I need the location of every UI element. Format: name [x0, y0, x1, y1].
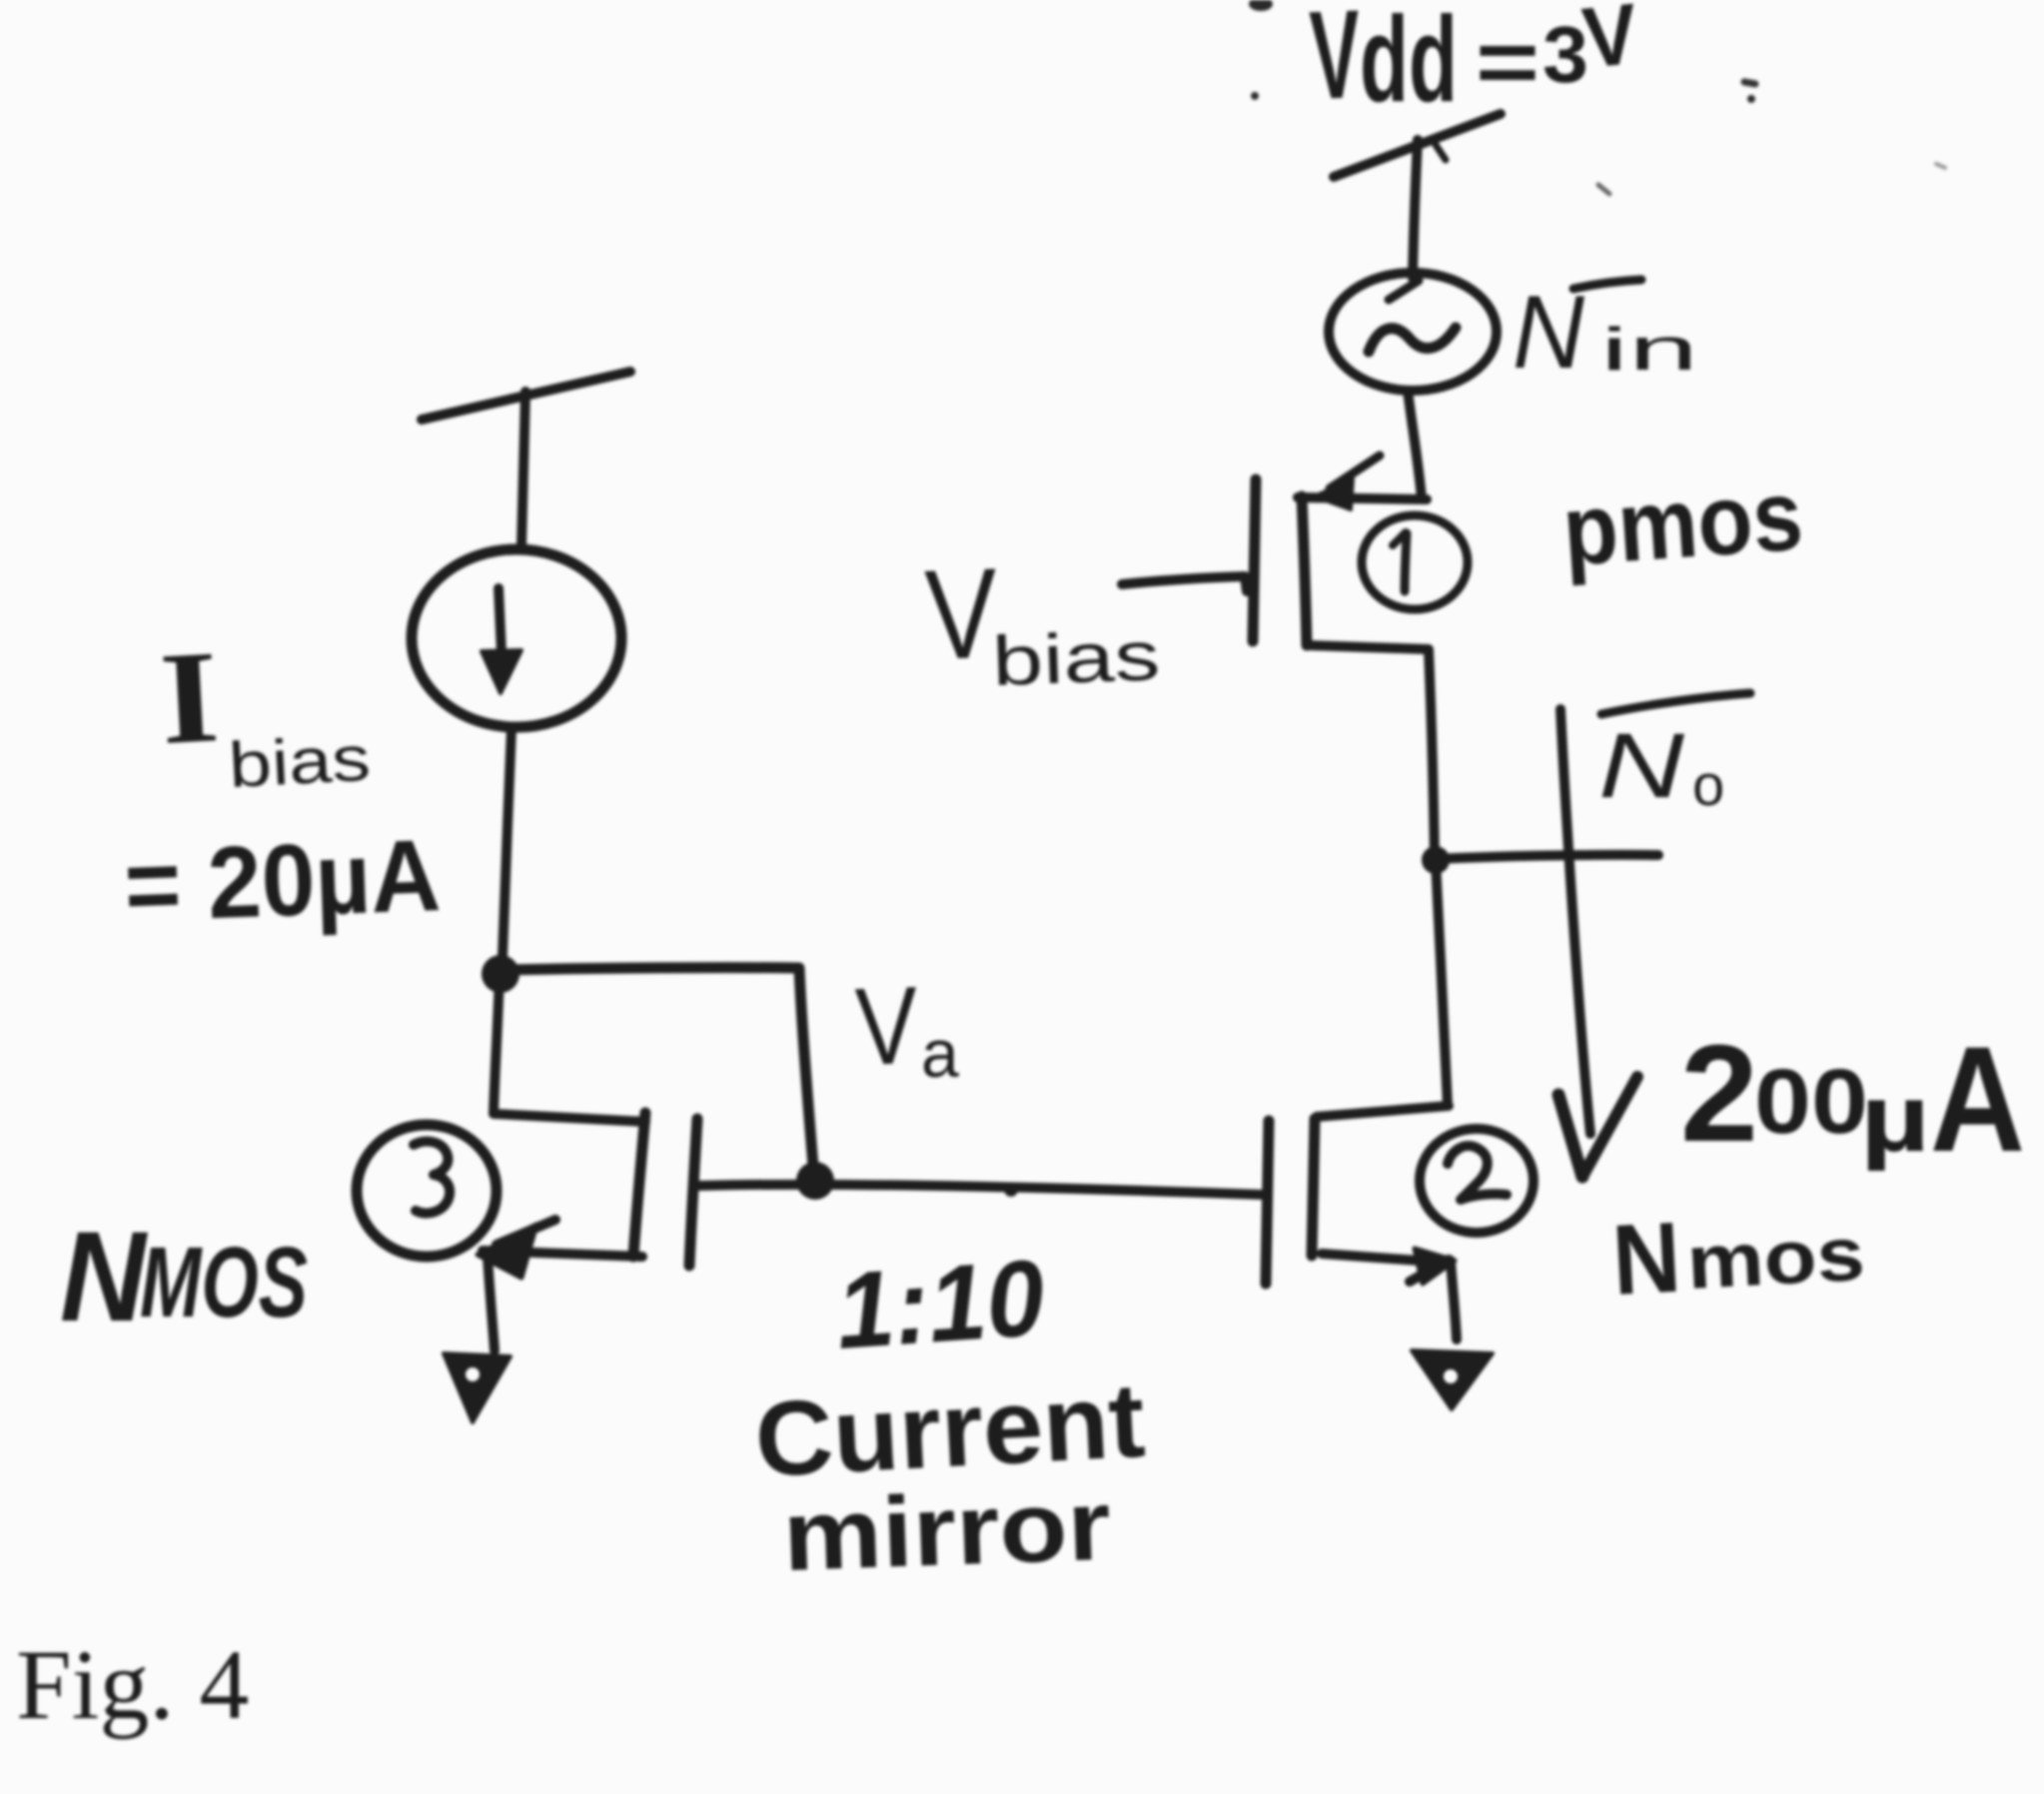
ground arrow (M2): [1412, 1350, 1493, 1409]
svg-text:N: N: [1609, 1202, 1683, 1317]
M2 label circle pin 2: [1420, 1129, 1533, 1233]
transistor M1 (PMOS): [1253, 455, 1468, 649]
transistor M3 (NMOS, diode connected): [357, 1113, 697, 1422]
wire M3 gate to M2 gate (node Va): [699, 1185, 1262, 1195]
svg-text:bias: bias: [227, 722, 373, 801]
M2 source arrow: [1410, 1260, 1449, 1282]
svg-text:dd: dd: [1360, 0, 1458, 127]
M3 channel bar: [633, 1113, 645, 1257]
M1 drain lead: [1307, 645, 1429, 649]
M1 source arrow: [1330, 455, 1380, 488]
M3 source arrow: [497, 1220, 555, 1245]
label Vdd = 3V: [1308, 0, 1642, 127]
label Va: [854, 964, 959, 1092]
M2 drain lead: [1317, 1106, 1449, 1117]
svg-text:in: in: [1600, 316, 1698, 383]
M1 source lead: [1298, 497, 1427, 499]
svg-text:o: o: [1692, 753, 1724, 818]
label vo (v with overbar, subscript o): [1598, 693, 1750, 818]
svg-text:=: =: [1476, 13, 1539, 113]
stray ink specks: [1249, 0, 1945, 194]
label NMOS (left): [60, 1206, 308, 1348]
svg-text:N: N: [60, 1206, 148, 1348]
svg-text:A: A: [1930, 1015, 2025, 1183]
label vin (v with overbar, subscript in): [1513, 275, 1698, 391]
label Nmos (right): [1609, 1202, 1866, 1317]
M2 gate bar: [1266, 1121, 1269, 1284]
blip on gate wire: [1004, 1183, 1018, 1197]
svg-text:µ: µ: [1860, 1065, 1930, 1172]
svg-text:mos: mos: [1684, 1212, 1866, 1306]
svg-text:V: V: [1308, 0, 1363, 126]
M1 channel bar: [1302, 496, 1307, 645]
svg-text:Fig. 4: Fig. 4: [16, 1629, 249, 1740]
M1 gate bar: [1253, 479, 1256, 641]
current arrow 200uA (probe line): [1558, 709, 1637, 1177]
wire Vbias to M1 gate: [1122, 576, 1247, 591]
wire node Vo to probe: [1436, 855, 1658, 859]
svg-text:N: N: [1598, 715, 1685, 817]
power supply bar (left, Ibias top): [422, 372, 630, 545]
label Ibias = 20uA: [123, 622, 443, 943]
svg-text:N: N: [1513, 275, 1585, 391]
svg-text:= 20µA: = 20µA: [123, 818, 443, 943]
svg-text:mirror: mirror: [781, 1469, 1113, 1592]
M3 label circle pin 3: [357, 1125, 497, 1257]
wire node A down to M3 drain: [494, 976, 645, 1122]
transistor M2 (NMOS): [1266, 1106, 1533, 1409]
svg-text:I: I: [157, 622, 223, 772]
ground arrow (M3): [444, 1353, 511, 1422]
current source Ibias (circle with down arrow): [412, 549, 621, 727]
AC source Vin (circle with tilde): [1329, 273, 1497, 391]
label 200uA: [1680, 1015, 2025, 1183]
M3 gate bar: [689, 1119, 697, 1266]
svg-text:1:10: 1:10: [832, 1237, 1048, 1371]
power Vdd supply symbol (top right): [1334, 114, 1501, 278]
node A junction dot: [482, 955, 519, 993]
label Vbias: [923, 542, 1161, 700]
svg-text:V: V: [923, 542, 1000, 687]
svg-text:bias: bias: [991, 616, 1162, 700]
wire Ibias to node A: [503, 728, 511, 957]
M2 channel bar: [1312, 1119, 1315, 1256]
M3 ground wire: [488, 1257, 495, 1350]
M1 label circle pin 1: [1362, 515, 1468, 609]
svg-text:a: a: [921, 1016, 959, 1092]
wire Vin source to M1 source: [1408, 391, 1422, 498]
node Va junction dot: [796, 1162, 834, 1200]
svg-text:MOS: MOS: [140, 1227, 308, 1339]
M2 ground wire: [1451, 1261, 1457, 1340]
svg-text:2: 2: [1680, 1017, 1758, 1171]
wire node A to Va (right then down): [505, 968, 814, 1179]
svg-text:V: V: [1578, 0, 1642, 87]
svg-text:V: V: [854, 964, 920, 1089]
wire node Vo to M2 drain: [1436, 861, 1448, 1106]
svg-text:pmos: pmos: [1559, 458, 1806, 586]
wire M1 drain to node Vo: [1429, 650, 1435, 860]
M2 source lead: [1322, 1254, 1433, 1262]
node Vo junction dot: [1422, 846, 1450, 874]
svg-text:00: 00: [1754, 1051, 1868, 1153]
M3 source lead: [483, 1251, 642, 1257]
